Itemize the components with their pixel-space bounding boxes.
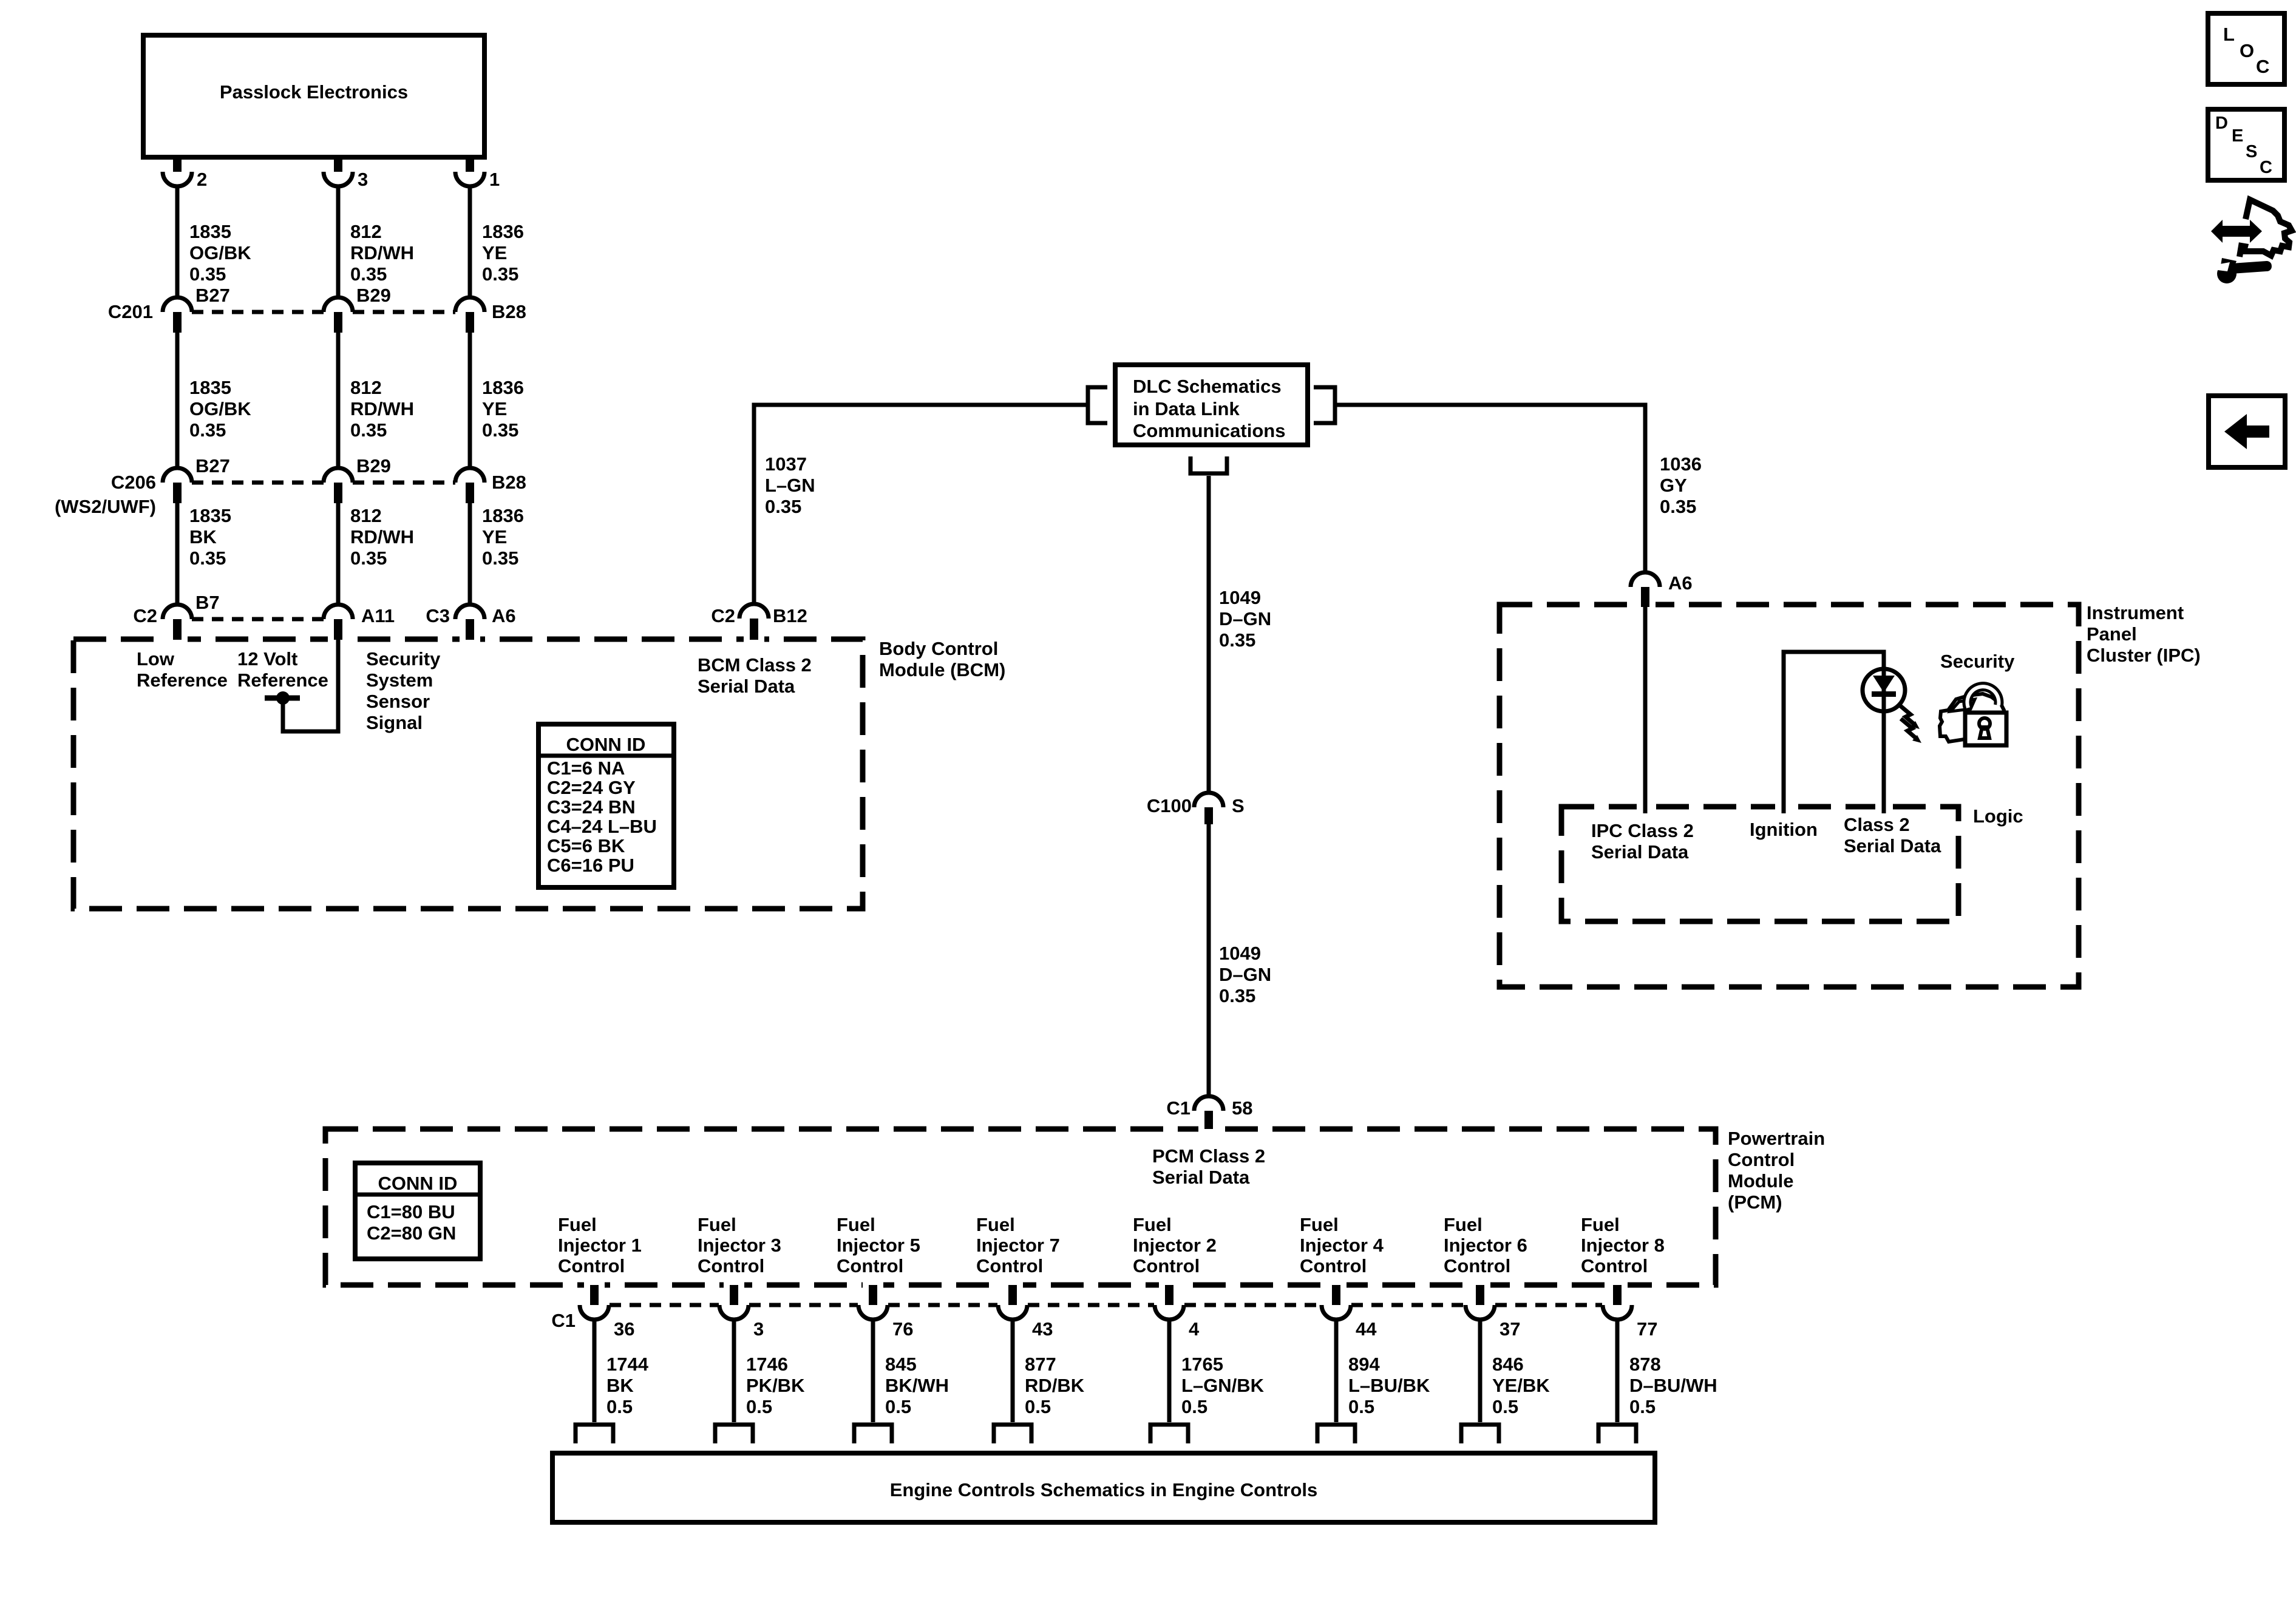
Fuel Injector 6 Control label — [1444, 1214, 1527, 1276]
connector C3 pin A6 — [426, 605, 515, 640]
svg-text:Injector 1: Injector 1 — [558, 1235, 642, 1256]
junction dot — [276, 691, 290, 705]
svg-text:0.5: 0.5 — [606, 1396, 633, 1417]
wire label 1036 GY 0.35 — [1660, 453, 1702, 517]
svg-text:C5=6 BK: C5=6 BK — [547, 835, 625, 856]
svg-text:YE: YE — [482, 242, 507, 263]
svg-text:Fuel: Fuel — [698, 1214, 736, 1235]
wire from Passlock to C201, circuit 812 — [336, 186, 341, 297]
svg-text:C1=80 BU: C1=80 BU — [367, 1201, 455, 1222]
svg-text:878: 878 — [1629, 1354, 1661, 1375]
svg-text:C: C — [2260, 158, 2272, 177]
svg-text:OG/BK: OG/BK — [189, 398, 251, 419]
svg-text:1836: 1836 — [482, 221, 524, 242]
wire C206 to BCM, circuit 1835 — [175, 503, 180, 605]
PCM Class 2 Serial Data label — [1152, 1145, 1265, 1188]
Fuel Injector 5 Control label — [837, 1214, 920, 1276]
svg-text:0.35: 0.35 — [1219, 629, 1255, 651]
svg-text:YE: YE — [482, 526, 507, 547]
wire C201 to C206, circuit 812 — [336, 333, 341, 468]
Fuel Injector 8 Control label — [1581, 1214, 1665, 1276]
wire BCM B12 to DLC, circuit 1037 — [754, 405, 1087, 604]
Passlock pin 1 connector — [455, 157, 500, 190]
connector pin A6 at IPC — [1631, 572, 1693, 607]
svg-text:Fuel: Fuel — [976, 1214, 1015, 1235]
connector pin A11 — [324, 605, 395, 640]
svg-text:Control: Control — [1728, 1149, 1795, 1170]
svg-text:GY: GY — [1660, 475, 1687, 496]
Passlock pin 2 connector — [163, 157, 207, 190]
PCM connector pin 77 — [1603, 1285, 1657, 1340]
Fuel Injector 7 Control label — [976, 1214, 1060, 1276]
Fuel Injector 4 Control label — [1300, 1214, 1384, 1276]
svg-text:Serial Data: Serial Data — [1844, 835, 1941, 856]
engine controls bracket connector — [1317, 1425, 1355, 1443]
svg-text:0.35: 0.35 — [765, 496, 801, 517]
svg-text:Fuel: Fuel — [837, 1214, 875, 1235]
svg-text:Serial Data: Serial Data — [698, 676, 795, 697]
engine controls bracket connector — [576, 1425, 613, 1443]
svg-text:Fuel: Fuel — [558, 1214, 597, 1235]
svg-text:PK/BK: PK/BK — [746, 1375, 805, 1396]
svg-text:B28: B28 — [492, 472, 526, 493]
back arrow icon box — [2209, 396, 2285, 467]
PCM connector pin 76 — [858, 1285, 913, 1340]
wire injector circuit 878 — [1615, 1320, 1620, 1422]
engine controls bracket connector — [854, 1425, 892, 1443]
svg-text:C: C — [2256, 56, 2269, 77]
DLC right bracket connector — [1314, 387, 1335, 423]
svg-text:812: 812 — [350, 221, 382, 242]
svg-text:Passlock Electronics: Passlock Electronics — [220, 81, 408, 103]
svg-text:L–BU/BK: L–BU/BK — [1348, 1375, 1430, 1396]
svg-text:812: 812 — [350, 377, 382, 398]
wire DLC to IPC A6, circuit 1036 — [1337, 405, 1645, 572]
wire injector circuit 894 — [1334, 1320, 1339, 1422]
svg-text:C2=80 GN: C2=80 GN — [367, 1222, 456, 1244]
svg-text:L: L — [2223, 24, 2235, 45]
wire label 1836 YE 0.35 — [482, 505, 524, 569]
svg-text:Injector 3: Injector 3 — [698, 1235, 781, 1256]
svg-text:1765: 1765 — [1181, 1354, 1223, 1375]
svg-text:1746: 1746 — [746, 1354, 788, 1375]
connector C1 label — [551, 1310, 576, 1331]
PCM connector pin 3 — [719, 1285, 764, 1340]
wire label 1836 YE 0.35 — [482, 377, 524, 441]
wire label 877 — [1025, 1354, 1085, 1417]
svg-text:1836: 1836 — [482, 377, 524, 398]
svg-text:C1=6 NA: C1=6 NA — [547, 758, 625, 779]
connector C201 pin B27 — [163, 285, 230, 333]
svg-text:RD/WH: RD/WH — [350, 398, 414, 419]
svg-text:2: 2 — [197, 169, 207, 190]
connector C100 pin S — [1147, 793, 1245, 824]
Body Control Module (BCM) dashed box — [73, 619, 863, 909]
Passlock Electronics module box — [143, 35, 484, 157]
svg-text:812: 812 — [350, 505, 382, 526]
svg-text:BCM Class 2: BCM Class 2 — [698, 654, 812, 676]
wire label 1835 OG/BK 0.35 — [189, 377, 251, 441]
engine controls bracket connector — [994, 1425, 1031, 1443]
wire label 1836 YE 0.35 — [482, 221, 524, 285]
svg-text:0.5: 0.5 — [1629, 1396, 1656, 1417]
engine controls bracket connector — [1598, 1425, 1636, 1443]
svg-text:0.35: 0.35 — [482, 263, 518, 285]
svg-text:76: 76 — [892, 1318, 913, 1340]
svg-text:C1: C1 — [551, 1310, 576, 1331]
Passlock pin 3 connector — [324, 157, 368, 190]
svg-text:Injector 8: Injector 8 — [1581, 1235, 1665, 1256]
svg-text:0.35: 0.35 — [1660, 496, 1696, 517]
svg-text:Injector 7: Injector 7 — [976, 1235, 1060, 1256]
svg-text:IPC Class 2: IPC Class 2 — [1591, 820, 1694, 841]
connector C201 pin B28 — [455, 297, 526, 333]
svg-text:C3=24 BN: C3=24 BN — [547, 796, 636, 818]
PCM connector pin 43 — [998, 1285, 1053, 1340]
svg-text:4: 4 — [1189, 1318, 1200, 1340]
svg-text:D–BU/WH: D–BU/WH — [1629, 1375, 1717, 1396]
svg-text:Powertrain: Powertrain — [1728, 1128, 1825, 1149]
svg-text:YE/BK: YE/BK — [1492, 1375, 1550, 1396]
Class 2 Serial Data label — [1844, 814, 1941, 856]
svg-text:(WS2/UWF): (WS2/UWF) — [55, 496, 156, 517]
svg-text:B12: B12 — [773, 605, 807, 626]
svg-text:Sensor: Sensor — [366, 691, 430, 712]
svg-text:BK/WH: BK/WH — [885, 1375, 949, 1396]
engine controls bracket connector — [1150, 1425, 1188, 1443]
engine controls bracket connector — [1461, 1425, 1499, 1443]
wire label 1835 OG/BK 0.35 — [189, 221, 251, 285]
svg-text:B27: B27 — [195, 455, 230, 476]
svg-text:Serial Data: Serial Data — [1591, 841, 1689, 863]
Low Reference label — [137, 648, 228, 691]
PCM connector pin 37 — [1466, 1285, 1520, 1340]
svg-text:B29: B29 — [356, 455, 391, 476]
svg-text:58: 58 — [1232, 1097, 1252, 1119]
svg-text:Control: Control — [976, 1255, 1043, 1276]
svg-text:CONN ID: CONN ID — [566, 734, 646, 755]
wire label 1744 — [606, 1354, 649, 1417]
Logic label — [1973, 805, 2023, 827]
Engine Controls Schematics box — [552, 1453, 1655, 1522]
svg-text:L–GN: L–GN — [765, 475, 815, 496]
wire label 1746 — [746, 1354, 805, 1417]
svg-text:Control: Control — [1581, 1255, 1648, 1276]
svg-text:0.35: 0.35 — [482, 419, 518, 441]
connector C2 pin B7 — [133, 592, 219, 640]
Security label — [1940, 651, 2015, 672]
wire from 12 Volt Reference to pin A11 — [283, 640, 338, 731]
wire label 846 — [1492, 1354, 1550, 1417]
wire label 1049 D-GN 0.35 — [1219, 587, 1271, 651]
svg-text:DLC Schematics: DLC Schematics — [1133, 376, 1282, 397]
IPC Class 2 Serial Data label — [1591, 820, 1694, 863]
svg-text:846: 846 — [1492, 1354, 1524, 1375]
svg-text:1049: 1049 — [1219, 943, 1261, 964]
svg-text:Signal: Signal — [366, 712, 423, 733]
wire label 812 RD/WH 0.35 — [350, 221, 414, 285]
DESC icon box — [2208, 109, 2284, 180]
svg-text:RD/WH: RD/WH — [350, 526, 414, 547]
svg-text:Module: Module — [1728, 1170, 1794, 1192]
wire label 812 RD/WH 0.35 — [350, 505, 414, 569]
svg-text:3: 3 — [358, 169, 368, 190]
svg-text:BK: BK — [189, 526, 217, 547]
svg-text:Security: Security — [366, 648, 441, 670]
connector C206 (WS2/UWF) label — [55, 472, 156, 517]
svg-text:C100: C100 — [1147, 795, 1192, 816]
connector C201 pin B29 — [324, 285, 391, 333]
svg-text:Class 2: Class 2 — [1844, 814, 1910, 835]
svg-text:Ignition: Ignition — [1750, 819, 1818, 840]
BCM CONN ID table — [538, 724, 674, 887]
svg-text:L–GN/BK: L–GN/BK — [1181, 1375, 1265, 1396]
svg-text:0.35: 0.35 — [189, 547, 226, 569]
svg-text:894: 894 — [1348, 1354, 1380, 1375]
DLC left bracket connector — [1088, 387, 1107, 423]
svg-text:YE: YE — [482, 398, 507, 419]
wire label 1049 D-GN 0.35 — [1219, 943, 1271, 1006]
svg-text:O: O — [2240, 40, 2254, 61]
svg-text:Injector 2: Injector 2 — [1133, 1235, 1217, 1256]
connector C206 pin B27 — [163, 455, 230, 503]
Powertrain Control Module (PCM) label — [1728, 1128, 1825, 1213]
svg-text:C6=16 PU: C6=16 PU — [547, 855, 634, 876]
wire injector circuit 1744 — [593, 1320, 597, 1422]
svg-text:B7: B7 — [195, 592, 220, 613]
wire C201 to C206, circuit 1835 — [175, 333, 180, 468]
svg-text:C206: C206 — [111, 472, 156, 493]
PCM C1 connector row dashed line — [610, 1303, 1602, 1307]
svg-text:Cluster (IPC): Cluster (IPC) — [2087, 645, 2201, 666]
svg-text:Injector 6: Injector 6 — [1444, 1235, 1527, 1256]
wire label 894 — [1348, 1354, 1430, 1417]
svg-text:Reference: Reference — [237, 670, 328, 691]
DLC bottom pigtail bracket — [1190, 456, 1227, 473]
Security System Sensor Signal label — [366, 648, 441, 733]
PCM CONN ID table — [355, 1163, 480, 1259]
engine controls bracket connector — [715, 1425, 753, 1443]
PCM connector pin 36 — [580, 1285, 634, 1340]
Fuel Injector 1 Control label — [558, 1214, 642, 1276]
svg-text:Control: Control — [558, 1255, 625, 1276]
svg-text:0.5: 0.5 — [1492, 1396, 1518, 1417]
connector C1 pin 58 — [1166, 1096, 1252, 1129]
svg-text:Low: Low — [137, 648, 175, 670]
svg-text:Control: Control — [837, 1255, 903, 1276]
svg-text:Control: Control — [1300, 1255, 1367, 1276]
wire label 1765 — [1181, 1354, 1265, 1417]
svg-text:C3: C3 — [426, 605, 450, 626]
12 Volt Reference terminal bar — [265, 696, 300, 701]
svg-text:37: 37 — [1500, 1318, 1520, 1340]
wire Ignition branch — [1784, 652, 1884, 807]
harness repair icon — [2211, 200, 2292, 283]
svg-text:0.5: 0.5 — [1348, 1396, 1374, 1417]
svg-text:43: 43 — [1032, 1318, 1053, 1340]
wire injector circuit 1765 — [1167, 1320, 1172, 1422]
svg-text:Engine Controls Schematics in: Engine Controls Schematics in Engine Con… — [890, 1479, 1317, 1500]
svg-text:OG/BK: OG/BK — [189, 242, 251, 263]
svg-text:Injector 4: Injector 4 — [1300, 1235, 1384, 1256]
12 Volt Reference label — [237, 648, 328, 691]
svg-text:A6: A6 — [492, 605, 516, 626]
svg-text:44: 44 — [1356, 1318, 1377, 1340]
wire injector circuit 877 — [1011, 1320, 1015, 1422]
svg-text:C1: C1 — [1166, 1097, 1190, 1119]
wire C206 to BCM, circuit 812 — [336, 503, 341, 605]
Ignition label — [1750, 819, 1818, 840]
BCM connector row dashed line — [192, 617, 324, 622]
wire label 845 — [885, 1354, 949, 1417]
svg-text:77: 77 — [1637, 1318, 1657, 1340]
svg-text:Control: Control — [1444, 1255, 1510, 1276]
svg-text:CONN ID: CONN ID — [378, 1173, 458, 1194]
svg-text:3: 3 — [753, 1318, 764, 1340]
svg-text:C2=24 GY: C2=24 GY — [547, 777, 636, 798]
Instrument Panel Cluster (IPC) label — [2087, 602, 2201, 666]
svg-text:0.5: 0.5 — [885, 1396, 911, 1417]
PCM connector pin 4 — [1155, 1285, 1200, 1340]
svg-text:Fuel: Fuel — [1444, 1214, 1483, 1235]
svg-text:0.5: 0.5 — [1181, 1396, 1207, 1417]
wire injector circuit 1746 — [732, 1320, 736, 1422]
svg-text:A6: A6 — [1668, 572, 1693, 594]
LOC icon box — [2208, 13, 2284, 84]
svg-text:0.35: 0.35 — [189, 419, 226, 441]
IPC logic dashed box — [1561, 799, 1958, 921]
wire from Passlock to C201, circuit 1836 — [468, 186, 472, 297]
svg-text:A11: A11 — [361, 605, 395, 626]
svg-text:0.35: 0.35 — [189, 263, 226, 285]
svg-text:Control: Control — [1133, 1255, 1200, 1276]
svg-text:1: 1 — [489, 169, 500, 190]
wire label 1835 BK 0.35 — [189, 505, 231, 569]
connector C206 pin B29 — [324, 455, 391, 503]
svg-text:PCM Class 2: PCM Class 2 — [1152, 1145, 1265, 1167]
svg-text:Security: Security — [1940, 651, 2015, 672]
svg-text:C2: C2 — [711, 605, 735, 626]
svg-text:Communications: Communications — [1133, 420, 1285, 441]
svg-text:1744: 1744 — [606, 1354, 649, 1375]
svg-text:1835: 1835 — [189, 221, 231, 242]
svg-text:B28: B28 — [492, 301, 526, 322]
wire DLC to C100, circuit 1049 — [1207, 476, 1211, 793]
svg-text:E: E — [2232, 126, 2243, 146]
svg-text:C2: C2 — [133, 605, 157, 626]
wire A6 to IPC logic — [1643, 607, 1648, 807]
svg-text:Fuel: Fuel — [1581, 1214, 1620, 1235]
Body Control Module (BCM) label — [879, 638, 1005, 680]
svg-text:0.35: 0.35 — [482, 547, 518, 569]
svg-text:D–GN: D–GN — [1219, 964, 1271, 985]
svg-text:1049: 1049 — [1219, 587, 1261, 608]
wire from Passlock to C201, circuit 1835 — [175, 186, 180, 297]
wire C201 to C206, circuit 1836 — [468, 333, 472, 468]
security LED indicator — [1863, 669, 1905, 711]
svg-text:Reference: Reference — [137, 670, 228, 691]
svg-text:0.35: 0.35 — [350, 419, 387, 441]
svg-text:Fuel: Fuel — [1300, 1214, 1339, 1235]
connector C206 pin B28 — [455, 468, 526, 503]
security car and padlock icon — [1940, 686, 2006, 745]
svg-text:C4–24 L–BU: C4–24 L–BU — [547, 816, 657, 837]
svg-text:B27: B27 — [195, 285, 230, 306]
svg-text:RD/BK: RD/BK — [1025, 1375, 1085, 1396]
wire C206 to BCM, circuit 1836 — [468, 503, 472, 605]
svg-text:C201: C201 — [108, 301, 153, 322]
svg-text:845: 845 — [885, 1354, 917, 1375]
svg-text:(PCM): (PCM) — [1728, 1192, 1782, 1213]
svg-text:0.5: 0.5 — [746, 1396, 772, 1417]
svg-text:BK: BK — [606, 1375, 634, 1396]
Fuel Injector 2 Control label — [1133, 1214, 1217, 1276]
svg-text:1835: 1835 — [189, 505, 231, 526]
wire label 1037 L-GN 0.35 — [765, 453, 815, 517]
svg-text:Panel: Panel — [2087, 623, 2137, 645]
wire LED to logic box — [1882, 711, 1886, 807]
DLC Schematics box — [1115, 365, 1308, 445]
svg-text:877: 877 — [1025, 1354, 1056, 1375]
svg-text:B29: B29 — [356, 285, 391, 306]
Fuel Injector 3 Control label — [698, 1214, 781, 1276]
BCM Class 2 Serial Data label — [698, 654, 812, 697]
connector C201 row dashed harness line — [192, 310, 455, 314]
svg-text:36: 36 — [614, 1318, 634, 1340]
svg-text:Instrument: Instrument — [2087, 602, 2184, 623]
svg-text:D–GN: D–GN — [1219, 608, 1271, 629]
svg-text:Logic: Logic — [1973, 805, 2023, 827]
wire injector circuit 845 — [871, 1320, 875, 1422]
connector C2 pin B12 — [711, 604, 807, 639]
svg-text:Injector 5: Injector 5 — [837, 1235, 920, 1256]
svg-text:0.35: 0.35 — [1219, 985, 1255, 1006]
svg-text:S: S — [2246, 142, 2257, 161]
svg-text:1836: 1836 — [482, 505, 524, 526]
svg-text:S: S — [1232, 795, 1245, 816]
svg-text:System: System — [366, 670, 433, 691]
svg-text:12 Volt: 12 Volt — [237, 648, 297, 670]
svg-text:Module (BCM): Module (BCM) — [879, 659, 1005, 680]
LED light arrows — [1899, 705, 1921, 743]
svg-text:0.5: 0.5 — [1025, 1396, 1051, 1417]
svg-text:Control: Control — [698, 1255, 764, 1276]
svg-text:0.35: 0.35 — [350, 547, 387, 569]
svg-text:Serial Data: Serial Data — [1152, 1167, 1250, 1188]
svg-text:0.35: 0.35 — [350, 263, 387, 285]
connector C206 row dashed harness line — [192, 481, 455, 485]
wire C100 to PCM C1, circuit 1049 — [1207, 824, 1211, 1096]
Instrument Panel Cluster (IPC) dashed box — [1500, 587, 2079, 987]
connector C201 label — [108, 301, 153, 322]
svg-text:1037: 1037 — [765, 453, 807, 475]
wire label 812 RD/WH 0.35 — [350, 377, 414, 441]
svg-text:Body Control: Body Control — [879, 638, 998, 659]
wire injector circuit 846 — [1478, 1320, 1483, 1422]
svg-text:D: D — [2215, 114, 2228, 133]
wire label 878 — [1629, 1354, 1717, 1417]
svg-text:Fuel: Fuel — [1133, 1214, 1172, 1235]
svg-text:1835: 1835 — [189, 377, 231, 398]
PCM connector pin 44 — [1322, 1285, 1377, 1340]
svg-text:in Data Link: in Data Link — [1133, 398, 1240, 419]
svg-text:RD/WH: RD/WH — [350, 242, 414, 263]
Powertrain Control Module (PCM) dashed box — [325, 1111, 1716, 1289]
svg-text:1036: 1036 — [1660, 453, 1702, 475]
